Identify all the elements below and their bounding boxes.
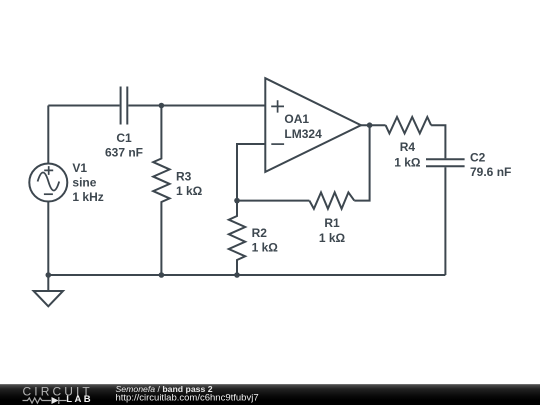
wire bottom rail [48,274,445,276]
svg-text:C2: C2 [470,151,486,165]
resistor R2 [229,201,245,275]
node output junction [367,122,373,128]
node C1-R3-opamp junction [159,103,165,109]
wire R4 to C2 [431,125,445,158]
CircuitLab logo resistor-diode symbol [23,397,67,404]
wire C1 to op-amp + input [128,105,265,107]
svg-text:1 kΩ: 1 kΩ [319,231,346,245]
svg-text:V1: V1 [72,161,87,175]
resistor R4 [386,117,432,133]
svg-text:LAB: LAB [66,394,93,405]
node ground junction [46,272,52,278]
svg-text:1 kHz: 1 kHz [72,190,103,204]
resistor R1 [309,192,354,208]
svg-text:R4: R4 [400,140,416,154]
node R3 bottom junction [159,272,165,278]
wire op-amp inverting input down to feedback node [237,144,265,201]
capacitor C1 [121,87,128,125]
svg-text:C1: C1 [116,131,132,145]
resistor R3 [153,106,169,276]
node feedback junction [234,198,240,204]
svg-text:R1: R1 [324,216,340,230]
op-amp OA1 [265,78,361,172]
svg-text:R3: R3 [176,170,192,184]
wire C2 to rail [444,167,446,275]
wire ground stub [47,275,49,291]
node R2 bottom junction [234,272,240,278]
wire V1 bottom to rail [47,201,49,275]
svg-text:637 nF: 637 nF [105,146,143,160]
svg-text:1 kΩ: 1 kΩ [176,184,203,198]
svg-text:R2: R2 [252,226,268,240]
svg-text:http://circuitlab.com/c6hnc9tf: http://circuitlab.com/c6hnc9tfubvj7 [116,393,259,404]
svg-text:OA1: OA1 [284,112,309,126]
svg-text:79.6 nF: 79.6 nF [470,165,511,179]
ground [34,291,63,306]
svg-text:LM324: LM324 [284,127,322,141]
wire op-amp output [361,124,386,126]
wire R1 right to output node [354,125,369,200]
wire feedback node to R1 [237,200,309,202]
capacitor C2 [426,159,465,166]
svg-text:1 kΩ: 1 kΩ [252,241,279,255]
svg-text:1 kΩ: 1 kΩ [394,155,421,169]
svg-text:sine: sine [72,176,96,190]
wire left vertical V1 top [47,106,49,164]
wire top from V1 to C1 [48,105,119,107]
voltage source V1 [29,164,67,202]
